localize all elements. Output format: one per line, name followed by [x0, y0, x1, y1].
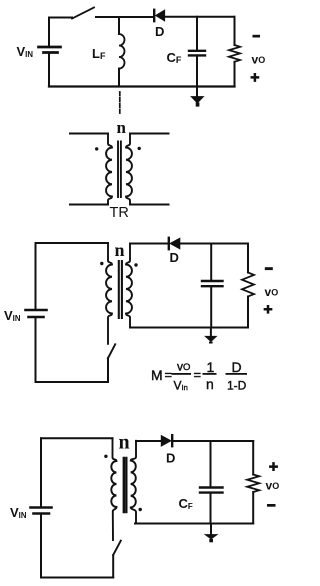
capacitor (circuit 3) bottom plate: [202, 285, 223, 287]
svg-text:VIN: VIN: [17, 44, 34, 59]
ground (circuit 1) arrowhead: [191, 97, 203, 103]
diode D (circuit 1) triangle: [156, 10, 165, 21]
inductor LF top lead: [118, 17, 120, 34]
svg-text:D: D: [232, 359, 242, 375]
transformer primary winding (circuit 4): [111, 438, 116, 540]
battery VIN (circuit 4) top lead: [40, 438, 42, 506]
wire: TR bottom-left lead: [70, 204, 108, 206]
wire: bottom rail (circuit 1): [49, 85, 235, 87]
capacitor CF (circuit 1) bottom lead: [196, 56, 198, 87]
capacitor CF (circuit 4) top lead: [210, 441, 212, 487]
battery VIN (circuit 3) long plate: [26, 309, 47, 312]
ground (circuit 4) stem: [210, 524, 212, 536]
load resistor (circuit 3) bottom lead: [247, 297, 249, 328]
wire: bottom rail left (circuit 4): [41, 577, 113, 579]
svg-text:M: M: [151, 367, 163, 383]
transformer core (circuit 4, heavy): [124, 458, 127, 512]
equation: fraction bar 1: [172, 373, 192, 375]
ground (circuit 4) arrowhead: [205, 535, 217, 539]
wire: TR top-right lead: [130, 133, 169, 135]
ground (circuit 3) arrowhead: [205, 336, 216, 341]
dotted link from LF to transformer: [119, 92, 121, 114]
wire: top rail (circuit 4) secondary to diode: [136, 440, 161, 442]
battery VIN (circuit 4) short plate: [34, 512, 50, 515]
svg-text:vO: vO: [266, 479, 280, 493]
primary phase dot (circuit 3): [100, 262, 103, 265]
svg-text:VIn: VIn: [174, 379, 188, 393]
switch blade (circuit 4): [113, 541, 121, 555]
battery VIN (circuit 4) bottom lead: [40, 515, 42, 578]
wire: top rail (circuit 3) diode to corner: [180, 243, 248, 245]
wire: bottom rail right (circuit 4): [135, 523, 253, 525]
wire: top rail left (circuit 3): [36, 242, 109, 244]
capacitor CF (circuit 1) bottom plate: [189, 54, 205, 56]
secondary phase dot (circuit 3): [134, 263, 137, 266]
capacitor (circuit 3) top plate: [202, 280, 223, 282]
primary phase dot (circuit 4): [104, 455, 107, 458]
switch S1 blade (open): [72, 8, 94, 19]
wire: top rail right segment (diode to corner): [165, 16, 235, 18]
svg-text:CF: CF: [179, 496, 193, 511]
ground (circuit 3) stem: [210, 328, 212, 338]
inductor LF bottom lead: [118, 69, 120, 87]
wire: top rail (circuit 4) diode to corner: [173, 440, 253, 442]
label minus (circuit 4 output): [267, 504, 276, 507]
svg-text:CF: CF: [167, 50, 182, 65]
battery VIN (circuit 3) short plate: [29, 316, 44, 319]
battery VIN (circuit 3) bottom lead: [35, 318, 37, 382]
capacitor CF (circuit 4) bottom lead: [210, 494, 212, 524]
transformer TR core: [118, 142, 121, 198]
wire: top rail left (circuit 4): [41, 437, 113, 439]
label minus (circuit 3 output): [265, 267, 273, 270]
svg-text:1-D: 1-D: [227, 379, 247, 393]
secondary phase dot (circuit 4): [139, 508, 142, 511]
wire: TR top-left lead: [70, 133, 108, 135]
svg-text:VIN: VIN: [10, 505, 27, 520]
label plus (circuit 1 output): [252, 74, 258, 80]
TR secondary phase dot: [138, 147, 141, 150]
battery VIN (circuit 1) top lead: [48, 18, 50, 47]
transformer TR secondary winding: [126, 134, 132, 205]
svg-text:LF: LF: [92, 46, 106, 61]
svg-text:D: D: [170, 250, 179, 265]
load resistor (circuit 1) bottom lead: [234, 62, 236, 87]
battery VIN (circuit 4) long plate: [31, 506, 52, 509]
label minus (circuit 1 output): [253, 35, 261, 38]
load resistor (circuit 4) bottom lead: [252, 492, 254, 524]
transformer primary winding (circuit 3): [106, 243, 112, 344]
svg-text:D: D: [155, 24, 164, 39]
wire: bottom rail left (circuit 3): [36, 381, 109, 383]
svg-text:vO: vO: [177, 360, 190, 374]
wire: switch to bottom rail (circuit 3): [107, 358, 109, 382]
battery VIN (circuit 1) long plate: [39, 46, 61, 49]
wire: top rail left segment: [49, 17, 72, 19]
battery VIN (circuit 3) top lead: [35, 243, 37, 309]
transformer core (circuit 3): [119, 261, 122, 318]
svg-text:n: n: [117, 118, 127, 137]
battery VIN (circuit 1) bottom lead: [48, 54, 50, 87]
wire: TR bottom-right lead: [130, 204, 169, 206]
wire: bottom rail right (circuit 3): [130, 327, 248, 329]
diode D (circuit 4) cathode bar: [171, 435, 173, 446]
diode D (circuit 3) triangle: [170, 238, 180, 249]
switch blade (circuit 3): [108, 344, 115, 358]
battery VIN (circuit 1) short plate: [44, 51, 58, 54]
svg-text:D: D: [166, 451, 175, 466]
svg-text:n: n: [119, 432, 130, 454]
svg-text:n: n: [206, 376, 214, 392]
svg-text:=: =: [194, 367, 202, 382]
inductor LF coil (3 bumps): [119, 34, 125, 69]
label plus (circuit 4 output): [270, 463, 276, 469]
load resistor (circuit 3) top lead: [247, 244, 249, 273]
wire: top rail middle segment (switch to diode): [96, 16, 153, 18]
transformer TR primary winding: [106, 134, 112, 205]
svg-text:vO: vO: [265, 285, 279, 299]
svg-text:TR: TR: [110, 205, 129, 221]
svg-text:1: 1: [207, 359, 215, 375]
svg-text:n: n: [115, 240, 125, 260]
wire: switch to bottom rail (circuit 4): [112, 555, 114, 578]
transformer secondary winding (circuit 4): [131, 441, 136, 524]
diode D (circuit 1) cathode bar: [153, 10, 155, 21]
load resistor (circuit 4) top lead: [252, 441, 254, 475]
load resistor (circuit 4) zigzag: [247, 475, 259, 493]
load resistor (circuit 3) zigzag: [242, 273, 254, 297]
transformer secondary winding (circuit 3): [126, 244, 132, 328]
load resistor (circuit 1) zigzag: [229, 45, 240, 62]
diode D (circuit 4) triangle: [161, 436, 171, 446]
diode D (circuit 3) cathode bar: [168, 238, 170, 249]
capacitor (circuit 3) bottom lead: [210, 287, 212, 328]
TR primary phase dot: [95, 147, 98, 150]
svg-text:VIN: VIN: [4, 308, 21, 323]
capacitor CF (circuit 4) top plate: [200, 486, 223, 488]
capacitor CF (circuit 1) top plate: [189, 50, 205, 52]
svg-text:vO: vO: [252, 53, 266, 67]
label plus (circuit 3 output): [265, 306, 271, 312]
capacitor (circuit 3) top lead: [210, 244, 212, 281]
equation: fraction bar 2: [203, 373, 217, 375]
ground (circuit 1) stem: [196, 87, 198, 98]
capacitor CF (circuit 4) bottom plate: [200, 491, 223, 493]
load resistor (circuit 1) top lead: [234, 17, 236, 45]
wire: top rail (circuit 3) secondary to diode: [130, 243, 168, 245]
svg-text:=: =: [165, 367, 173, 382]
equation: fraction bar 3: [226, 373, 248, 375]
capacitor CF (circuit 1) top lead: [196, 17, 198, 50]
